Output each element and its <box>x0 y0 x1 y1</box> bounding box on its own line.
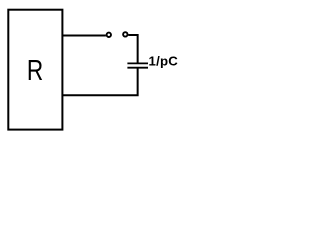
terminal (open circle, left) <box>107 33 111 37</box>
value label 1/pC <box>149 53 179 68</box>
label R <box>27 53 43 86</box>
wire: box top output to left terminal <box>62 35 106 37</box>
svg-text:1/pC: 1/pC <box>149 53 179 68</box>
resistor R (box) <box>8 10 62 130</box>
wire: capacitor bottom to box return <box>62 68 137 96</box>
terminal (open circle, right) <box>123 32 127 36</box>
capacitor C bottom plate <box>127 67 148 69</box>
wire: right terminal to capacitor top <box>128 35 137 63</box>
capacitor C top plate <box>127 62 148 64</box>
svg-text:R: R <box>27 53 43 86</box>
